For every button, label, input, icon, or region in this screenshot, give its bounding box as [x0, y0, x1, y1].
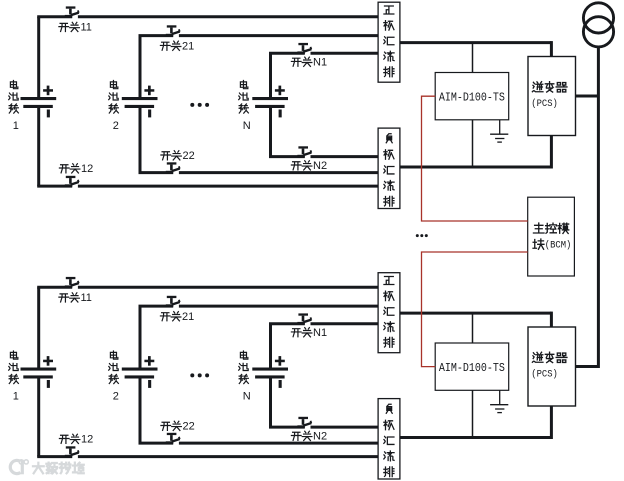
svg-text:(PCS): (PCS) [531, 369, 558, 381]
svg-text:N2: N2 [313, 160, 327, 172]
svg-text:AIM-D100-TS: AIM-D100-TS [439, 91, 505, 104]
svg-text:(PCS): (PCS) [531, 98, 558, 110]
svg-text:12: 12 [81, 434, 93, 446]
svg-text:21: 21 [182, 41, 194, 53]
svg-text:22: 22 [183, 150, 195, 162]
svg-text:N: N [243, 120, 251, 132]
svg-text:11: 11 [81, 292, 92, 304]
svg-text:AIM-D100-TS: AIM-D100-TS [439, 362, 505, 375]
svg-text:N1: N1 [313, 57, 327, 69]
svg-text:21: 21 [182, 311, 194, 323]
svg-text:22: 22 [183, 421, 195, 433]
svg-text:2: 2 [113, 120, 119, 132]
svg-text:11: 11 [81, 22, 92, 34]
svg-text:2: 2 [113, 391, 119, 403]
svg-text:12: 12 [81, 163, 93, 175]
svg-text:1: 1 [13, 120, 19, 132]
svg-text:(BCM): (BCM) [545, 240, 572, 252]
svg-text:N1: N1 [313, 327, 327, 339]
svg-text:N: N [243, 391, 251, 403]
svg-text:N2: N2 [313, 431, 327, 443]
svg-text:1: 1 [13, 391, 19, 403]
